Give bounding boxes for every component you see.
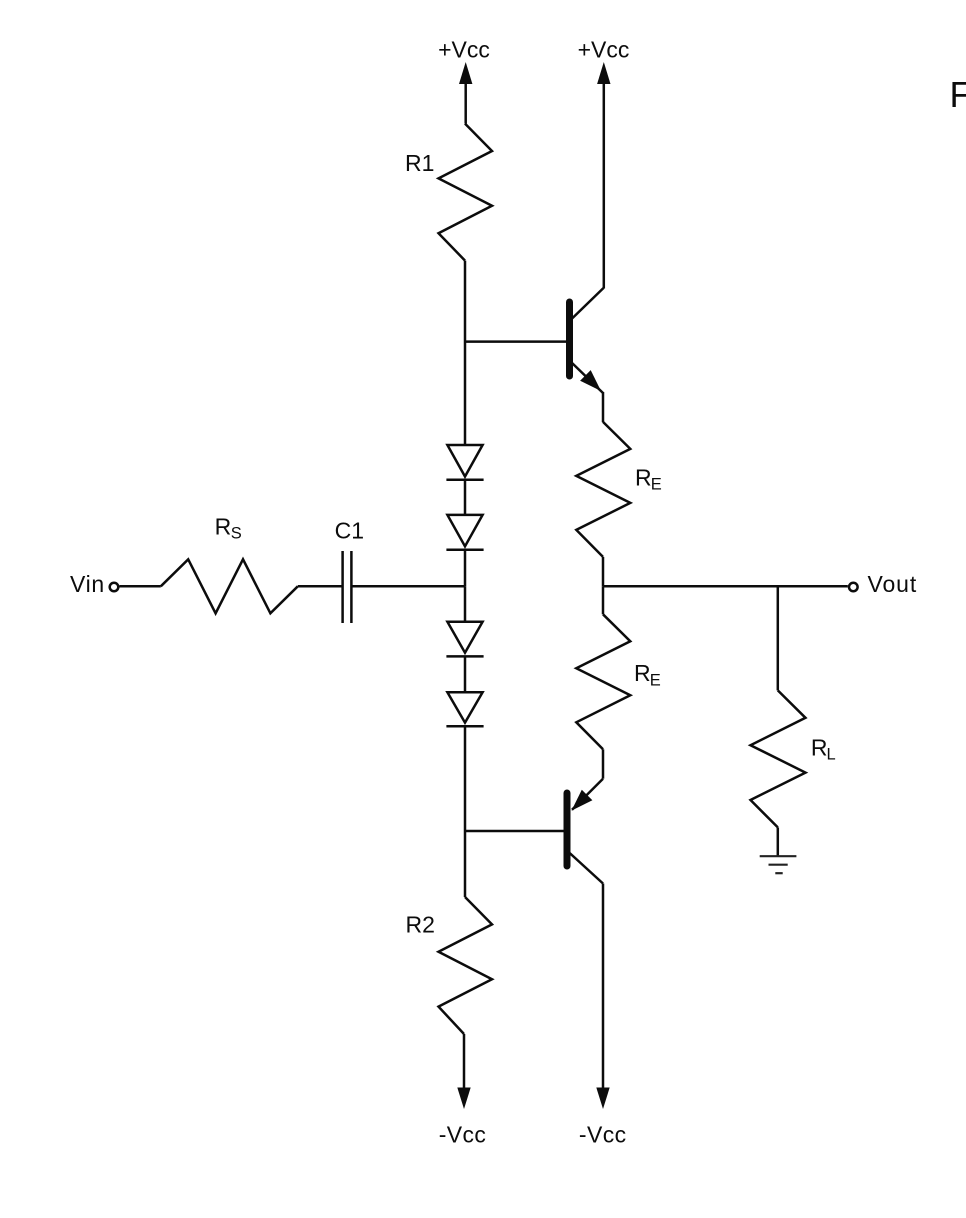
svg-text:+Vcc: +Vcc — [438, 37, 490, 63]
terminal Vin circle — [110, 583, 119, 592]
svg-text:S: S — [231, 524, 242, 542]
diode D3 — [446, 622, 483, 657]
resistor R2 — [439, 897, 493, 1034]
svg-text:R2: R2 — [406, 911, 435, 937]
wire D3 to D4 — [464, 656, 467, 692]
power -Vcc left arrow — [457, 1034, 470, 1109]
svg-text:L: L — [827, 745, 836, 763]
svg-text:R: R — [635, 465, 652, 491]
wire Q2 collector down — [602, 884, 605, 1089]
power +Vcc right label — [578, 37, 630, 63]
ground — [760, 856, 797, 873]
power +Vcc left arrow — [459, 62, 472, 124]
wire D2 to mid node — [464, 550, 467, 587]
power -Vcc right arrow — [596, 1088, 609, 1110]
wire output node to RE lower — [602, 586, 605, 614]
svg-text:R: R — [215, 514, 232, 540]
svg-text:-Vcc: -Vcc — [439, 1121, 487, 1147]
transistor Q1 (NPN) — [566, 288, 604, 393]
svg-text:E: E — [651, 476, 662, 494]
wire C1 to mid node — [351, 585, 465, 588]
power -Vcc left label — [439, 1121, 487, 1147]
svg-text:R: R — [634, 660, 651, 686]
wire RE lower to Q2 emitter — [602, 749, 605, 778]
terminal Vin label — [70, 571, 105, 597]
terminal Vout circle — [849, 583, 858, 592]
resistor Rs — [161, 559, 298, 613]
svg-text:F: F — [950, 74, 966, 115]
terminal Vout label — [868, 571, 918, 597]
svg-text:+Vcc: +Vcc — [578, 37, 630, 63]
wire mid node to D3 — [464, 586, 467, 621]
wire Q1 emitter to RE upper — [602, 392, 605, 422]
wire output rail to RL — [777, 586, 780, 690]
diode D1 — [446, 445, 483, 480]
diode D2 — [446, 515, 483, 550]
wire RL to ground — [777, 827, 780, 856]
resistor RE lower — [576, 614, 630, 749]
svg-text:-Vcc: -Vcc — [579, 1121, 627, 1147]
label R2 — [406, 911, 435, 937]
wire Rs to C1 — [298, 585, 343, 588]
wire output rail to Vout — [603, 585, 848, 588]
power +Vcc left label — [438, 37, 490, 63]
resistor R1 — [439, 124, 493, 261]
svg-text:E: E — [650, 672, 661, 690]
svg-text:Vout: Vout — [868, 571, 918, 597]
wire R1 to diode D1 (through base node) — [464, 261, 467, 445]
wire base of Q1 — [465, 340, 566, 343]
label RE lower — [634, 660, 661, 690]
label C1 — [335, 518, 364, 544]
power -Vcc right label — [579, 1121, 627, 1147]
label R1 — [405, 150, 434, 176]
diode D4 — [446, 692, 483, 726]
caption F (cropped figure title) — [950, 74, 966, 115]
svg-text:R1: R1 — [405, 150, 434, 176]
wire base of Q2 — [465, 830, 564, 833]
wire Vin to Rs — [120, 585, 161, 588]
power +Vcc right arrow and wire to Q1 collector — [597, 62, 610, 289]
wire RE upper to output node — [602, 557, 605, 586]
svg-text:C1: C1 — [335, 518, 364, 544]
transistor Q2 (PNP) — [564, 779, 604, 884]
resistor RL — [751, 690, 806, 827]
svg-text:Vin: Vin — [70, 571, 105, 597]
capacitor C1 — [343, 551, 352, 623]
wire D4 to R2 (through base node of Q2) — [464, 726, 467, 897]
label RL — [811, 734, 836, 763]
label Rs — [215, 514, 242, 543]
wire D1 to D2 — [464, 480, 467, 515]
svg-text:R: R — [811, 734, 828, 760]
resistor RE upper — [576, 422, 630, 557]
label RE upper — [635, 465, 662, 494]
